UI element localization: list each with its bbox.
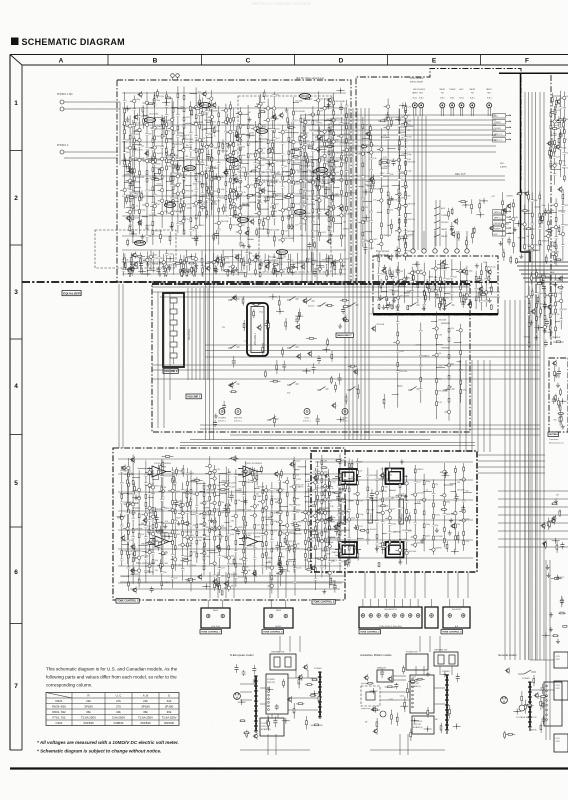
capacitor C388 bbox=[543, 208, 547, 216]
resistor R432 bbox=[458, 201, 468, 203]
capacitor C160 bbox=[307, 242, 311, 249]
capacitor C746 bbox=[333, 581, 337, 593]
board pin2 bbox=[546, 714, 548, 716]
long section bus bold bbox=[22, 281, 498, 283]
circuit strand column 471 bbox=[392, 270, 399, 309]
resistor R912 bbox=[427, 707, 429, 718]
circuit strand column 20 bbox=[233, 107, 251, 230]
wire bbox=[199, 288, 201, 380]
circuit strand column 610 bbox=[117, 466, 131, 566]
node N112 bbox=[121, 158, 129, 164]
resistor R364 bbox=[551, 149, 553, 159]
resistor R101 bbox=[129, 160, 131, 171]
ground G399 bbox=[513, 227, 517, 232]
circuit strand column 621 bbox=[200, 486, 216, 569]
resistor R308 bbox=[129, 266, 131, 277]
node N493 bbox=[438, 301, 446, 307]
circuit strand column 618 bbox=[178, 482, 193, 580]
resistor R819 bbox=[555, 394, 557, 402]
capacitor C682 bbox=[230, 491, 234, 502]
transistor Q552 bbox=[228, 382, 233, 389]
wire bbox=[118, 548, 342, 550]
transistor Q164 bbox=[126, 215, 131, 222]
wire bbox=[459, 360, 461, 452]
wire bbox=[434, 703, 445, 705]
transistor Q135 bbox=[330, 177, 335, 184]
connector box bbox=[443, 607, 470, 628]
wire bbox=[364, 572, 366, 598]
resistor R876 bbox=[243, 732, 250, 734]
wire bbox=[119, 102, 121, 165]
resistor R715 bbox=[158, 465, 160, 480]
resistor R824 bbox=[559, 413, 561, 426]
ground G240 bbox=[247, 244, 251, 249]
resistor R220 bbox=[333, 160, 335, 174]
circuit strand column 383 bbox=[548, 198, 567, 265]
board pin bbox=[412, 678, 414, 680]
node N932 bbox=[513, 709, 521, 715]
capacitor C597 bbox=[265, 320, 269, 329]
resistor R692 bbox=[176, 467, 178, 476]
resistor R839 bbox=[545, 540, 547, 549]
circuit strand column 24 bbox=[259, 99, 279, 237]
fuse F704 bbox=[449, 655, 455, 664]
resistor R149 bbox=[127, 238, 129, 246]
resistor R524 bbox=[413, 270, 415, 286]
resistor R285 bbox=[130, 255, 132, 266]
node N236 bbox=[337, 88, 345, 94]
transistor Q712 bbox=[121, 465, 126, 472]
circuit strand column 357 bbox=[549, 108, 560, 169]
connector pin bbox=[377, 614, 381, 618]
transistor Q661 bbox=[277, 561, 282, 568]
transistor Q266 bbox=[331, 259, 336, 266]
circuit strand column 40 bbox=[165, 98, 182, 232]
resistor R335 bbox=[380, 161, 389, 163]
connector pin bbox=[393, 614, 397, 618]
transistor Q339 bbox=[365, 131, 370, 138]
circuit strand column 645 bbox=[218, 467, 235, 559]
wire bbox=[277, 572, 279, 598]
jack label PHONO3 bbox=[417, 89, 425, 99]
ground G853 bbox=[555, 575, 559, 580]
resistor R903 bbox=[406, 683, 408, 698]
resistor R274 bbox=[181, 271, 192, 273]
wire bbox=[364, 108, 366, 440]
ground G678 bbox=[242, 535, 246, 540]
transistor Q565 bbox=[307, 350, 312, 357]
thermal switch box bbox=[270, 654, 296, 670]
resistor R345 bbox=[396, 246, 398, 259]
wire bbox=[425, 116, 427, 250]
resistor R453 bbox=[540, 306, 542, 316]
wire bbox=[393, 599, 395, 607]
circuit strand column 484 bbox=[475, 271, 481, 309]
node N468 bbox=[540, 271, 548, 277]
node N329 bbox=[362, 189, 370, 195]
wire bbox=[471, 360, 473, 452]
wire bbox=[478, 466, 545, 468]
resistor R594 bbox=[268, 321, 270, 330]
resistor R103 bbox=[141, 191, 143, 202]
power transformer T902 bbox=[445, 674, 449, 734]
circuit strand column 59 bbox=[172, 254, 175, 274]
bold bus vertical bbox=[520, 73, 522, 252]
resistor R514 bbox=[425, 292, 427, 302]
circuit strand column 628 bbox=[250, 468, 265, 582]
circuit strand column 9 bbox=[169, 101, 183, 215]
transistor Q933 bbox=[505, 667, 510, 674]
node N886 bbox=[265, 686, 273, 692]
resistor R573 bbox=[357, 384, 359, 398]
wire bbox=[64, 151, 118, 153]
ground G679 bbox=[163, 524, 167, 529]
resistor R452 bbox=[538, 276, 550, 278]
transistor Q593 bbox=[302, 297, 307, 304]
jack J1 bbox=[412, 103, 417, 108]
wire bbox=[419, 636, 421, 652]
connector pin bbox=[401, 614, 405, 618]
resistor R494 bbox=[439, 301, 441, 310]
ground G843 bbox=[546, 565, 550, 570]
jack label AUX bbox=[459, 88, 464, 99]
node N307 bbox=[253, 253, 261, 259]
node N210 bbox=[162, 99, 170, 105]
row tick bbox=[10, 338, 22, 340]
wire bbox=[451, 108, 453, 116]
resistor R810 bbox=[446, 541, 448, 552]
circuit strand column 25 bbox=[270, 92, 286, 226]
wire bbox=[169, 292, 171, 400]
circuit strand column 46 bbox=[255, 97, 271, 239]
wire bbox=[240, 699, 252, 701]
circuit strand column 644 bbox=[202, 482, 214, 576]
resistor R574 bbox=[265, 370, 267, 378]
wire bbox=[451, 666, 453, 675]
jack J5 bbox=[459, 103, 464, 108]
capacitor C591 bbox=[295, 316, 299, 324]
transistor Q457 bbox=[547, 304, 552, 311]
capacitor C567 bbox=[317, 355, 321, 364]
wire bbox=[64, 108, 120, 110]
node N874 bbox=[311, 691, 319, 697]
resistor R152 bbox=[160, 230, 162, 243]
circuit strand column 15 bbox=[202, 107, 218, 219]
circuit strand column 649 bbox=[289, 457, 303, 573]
ground G491 bbox=[422, 306, 426, 311]
node N338 bbox=[362, 215, 370, 221]
wire bbox=[535, 92, 537, 660]
circuit strand column 472 bbox=[394, 262, 410, 311]
board pin bbox=[268, 687, 270, 689]
connector pin bbox=[369, 614, 373, 618]
main switch box bbox=[377, 670, 393, 682]
resistor R935 bbox=[505, 733, 515, 735]
circuit strand column 626 bbox=[231, 469, 247, 587]
node N911 bbox=[441, 671, 449, 677]
circuit strand column 45 bbox=[236, 121, 251, 240]
wire bbox=[412, 231, 414, 249]
capacitor C719 bbox=[150, 586, 154, 592]
circuit strand column 635 bbox=[311, 468, 325, 590]
row tick bbox=[10, 150, 22, 152]
transistor Q261 bbox=[234, 254, 239, 261]
wire bbox=[260, 687, 266, 689]
switch terminal S5 bbox=[455, 249, 459, 253]
transistor Q664 bbox=[142, 517, 147, 524]
ground G219 bbox=[327, 102, 331, 107]
wire bbox=[423, 666, 425, 675]
resistor R171 bbox=[291, 148, 302, 150]
resistor R698 bbox=[271, 497, 273, 508]
resistor R465 bbox=[537, 283, 543, 285]
table row line bbox=[46, 708, 179, 710]
circuit strand column 26 bbox=[275, 125, 294, 243]
circuit strand column 34 bbox=[321, 123, 335, 241]
transistor Q414 bbox=[506, 203, 511, 210]
node N163 bbox=[123, 106, 131, 112]
transistor Q918 bbox=[371, 706, 376, 713]
resistor R776 bbox=[321, 467, 328, 469]
circuit strand column 765 bbox=[429, 479, 443, 555]
ground G108 bbox=[133, 146, 137, 151]
resistor R860 bbox=[310, 694, 317, 696]
panel lamp DISC bbox=[304, 409, 310, 415]
wire bbox=[240, 691, 252, 693]
capacitor C750 bbox=[223, 505, 227, 513]
resistor R106 bbox=[147, 103, 155, 105]
ground G235 bbox=[264, 198, 268, 203]
node N349 bbox=[367, 183, 375, 189]
circuit strand column 4 bbox=[131, 108, 149, 234]
bold bus top right bbox=[499, 72, 568, 74]
capacitor C258 bbox=[273, 267, 277, 274]
circuit strand column 22 bbox=[249, 121, 267, 211]
wire bbox=[441, 108, 443, 116]
resistor R278 bbox=[272, 267, 274, 275]
circuit strand column 481 bbox=[450, 259, 457, 301]
circuit strand column 39 bbox=[147, 121, 164, 245]
bus tap arrow bbox=[232, 198, 237, 200]
transistor Q674 bbox=[310, 565, 315, 572]
node N162 bbox=[246, 133, 254, 139]
circuit strand column 29 bbox=[296, 115, 311, 230]
label TONE CONTROL 4 bbox=[441, 630, 463, 634]
wire bbox=[213, 170, 215, 440]
resistor R97 bbox=[189, 101, 191, 115]
circuit strand column 753 bbox=[320, 469, 336, 545]
wire bbox=[122, 261, 346, 263]
resistor R217 bbox=[244, 168, 246, 180]
resistor R904 bbox=[385, 686, 396, 688]
capacitor C431 bbox=[450, 222, 454, 233]
resistor R334 bbox=[398, 184, 400, 198]
resistor R264 bbox=[183, 260, 185, 273]
circuit strand column 647 bbox=[262, 485, 274, 570]
wire bbox=[295, 670, 297, 678]
transistor Q562 bbox=[331, 402, 336, 409]
wire bbox=[514, 300, 516, 660]
wire bbox=[509, 300, 511, 660]
resistor R294 bbox=[224, 270, 231, 272]
resistor R872 bbox=[306, 716, 308, 730]
resistor R584 bbox=[298, 309, 300, 321]
wire bbox=[120, 575, 345, 577]
label TONE CONTROL 7 bbox=[200, 630, 222, 634]
transistor Q541 bbox=[257, 324, 262, 331]
capacitor C689 bbox=[275, 542, 279, 552]
resistor R289 bbox=[272, 264, 278, 266]
table row line bbox=[46, 703, 179, 705]
IC U8 bbox=[135, 241, 146, 246]
switch SW bbox=[377, 297, 389, 301]
circuit strand column 767 bbox=[450, 466, 465, 551]
capacitor C495 bbox=[385, 303, 389, 310]
ground G790 bbox=[400, 459, 404, 464]
resistor R928 bbox=[504, 731, 506, 739]
resistor R891 bbox=[415, 678, 425, 680]
board pin2 bbox=[546, 700, 548, 702]
noise filter box bbox=[361, 686, 380, 706]
resistor R426 bbox=[472, 228, 474, 244]
resistor R269 bbox=[181, 268, 183, 277]
circuit strand column 71 bbox=[273, 253, 285, 275]
capacitor C256 bbox=[128, 268, 132, 278]
board pin bbox=[412, 690, 414, 692]
wire bbox=[467, 572, 469, 598]
thermal sw box2 bbox=[434, 652, 458, 666]
table row line bbox=[46, 714, 179, 716]
resistor R779 bbox=[351, 459, 353, 472]
capacitor C443 bbox=[543, 301, 547, 310]
circuit strand column 636 bbox=[317, 455, 328, 578]
switch SW bbox=[228, 345, 240, 349]
resistor R590 bbox=[343, 306, 349, 308]
capacitor C454 bbox=[542, 283, 546, 292]
slider pot BASS bbox=[341, 499, 346, 524]
wire bbox=[524, 300, 526, 660]
wire bbox=[477, 360, 479, 452]
resistor R791 bbox=[332, 492, 342, 494]
capacitor C191 bbox=[152, 173, 156, 181]
table header diagonal bbox=[46, 693, 72, 699]
transistor Q516 bbox=[487, 269, 492, 276]
resistor R861 bbox=[298, 675, 300, 688]
wire bbox=[380, 699, 410, 701]
resistor R247 bbox=[259, 273, 261, 277]
wire bbox=[536, 300, 538, 660]
ground G190 bbox=[314, 183, 318, 188]
resistor R462 bbox=[530, 272, 532, 285]
wire bbox=[498, 522, 568, 524]
circuit strand column 320 bbox=[363, 135, 382, 250]
transistor Q373 bbox=[547, 140, 552, 147]
ground G337 bbox=[390, 196, 394, 201]
resistor R733 bbox=[330, 577, 332, 585]
resistor R145 bbox=[142, 105, 144, 114]
resistor R923 bbox=[521, 691, 523, 706]
circuit strand column 439 bbox=[541, 287, 547, 332]
circuit strand column 629 bbox=[258, 482, 272, 574]
node N683 bbox=[325, 539, 333, 545]
wire bbox=[374, 572, 376, 598]
circuit strand column 28 bbox=[288, 97, 305, 242]
ground G709 bbox=[280, 569, 284, 574]
circuit strand column 41 bbox=[178, 127, 194, 231]
capacitor C898 bbox=[380, 668, 384, 678]
circuit strand column 58 bbox=[162, 250, 176, 276]
circuit strand column 77 bbox=[315, 252, 329, 272]
resistor R544 bbox=[276, 360, 278, 374]
resistor R111 bbox=[213, 233, 215, 241]
source label low TUNER bbox=[493, 226, 512, 230]
transistor Q890 bbox=[364, 674, 369, 681]
wire bbox=[413, 116, 415, 250]
node N277 bbox=[166, 256, 174, 262]
transistor Q804 bbox=[328, 515, 333, 522]
ground G846 bbox=[549, 612, 553, 617]
resistor R907 bbox=[410, 729, 412, 742]
resistor R428 bbox=[458, 231, 460, 241]
ground G140 bbox=[285, 108, 289, 113]
ground G583 bbox=[338, 324, 342, 329]
resistor R193 bbox=[206, 172, 208, 179]
wire bbox=[173, 325, 175, 331]
resistor R922 bbox=[539, 696, 548, 698]
connector pin bbox=[269, 614, 273, 618]
wire bbox=[439, 666, 441, 675]
capacitor C576 bbox=[282, 361, 286, 372]
resistor R490 bbox=[434, 276, 436, 291]
circuit strand column 620 bbox=[192, 477, 206, 563]
resistor R245 bbox=[124, 261, 126, 271]
transistor Q400 bbox=[502, 207, 507, 214]
node N446 bbox=[535, 325, 543, 331]
circuit strand column 622 bbox=[203, 456, 219, 565]
jack J7 bbox=[487, 103, 492, 108]
circuit strand column 56 bbox=[152, 252, 164, 272]
wire bbox=[529, 300, 531, 660]
ground G517 bbox=[442, 297, 446, 302]
circuit strand column 92 bbox=[305, 252, 317, 271]
source label AUX bbox=[493, 114, 512, 118]
resistor R342 bbox=[370, 132, 372, 142]
capacitor C536 bbox=[390, 304, 394, 310]
switch SW bbox=[317, 387, 329, 391]
wire bbox=[483, 360, 485, 452]
ground G194 bbox=[242, 243, 246, 248]
wire bbox=[539, 92, 541, 660]
terminal PHONO1-R bbox=[60, 107, 64, 111]
circuit strand column 51 bbox=[327, 118, 343, 227]
resistor R700 bbox=[219, 531, 221, 543]
capacitor C298 bbox=[231, 267, 235, 276]
resistor R831 bbox=[548, 518, 550, 530]
wire bbox=[269, 572, 271, 598]
resistor R511 bbox=[490, 304, 492, 310]
resistor R814 bbox=[560, 413, 562, 425]
transistor Q186 bbox=[315, 175, 320, 182]
circuit strand column 624 bbox=[215, 475, 230, 583]
transistor Q100 bbox=[133, 114, 138, 121]
wire bbox=[348, 108, 350, 440]
wire bbox=[404, 572, 406, 598]
wire bbox=[504, 300, 506, 660]
ground G783 bbox=[448, 530, 452, 535]
capacitor C877 bbox=[273, 716, 277, 727]
transistor Q196 bbox=[324, 210, 329, 217]
wire bbox=[209, 170, 211, 440]
